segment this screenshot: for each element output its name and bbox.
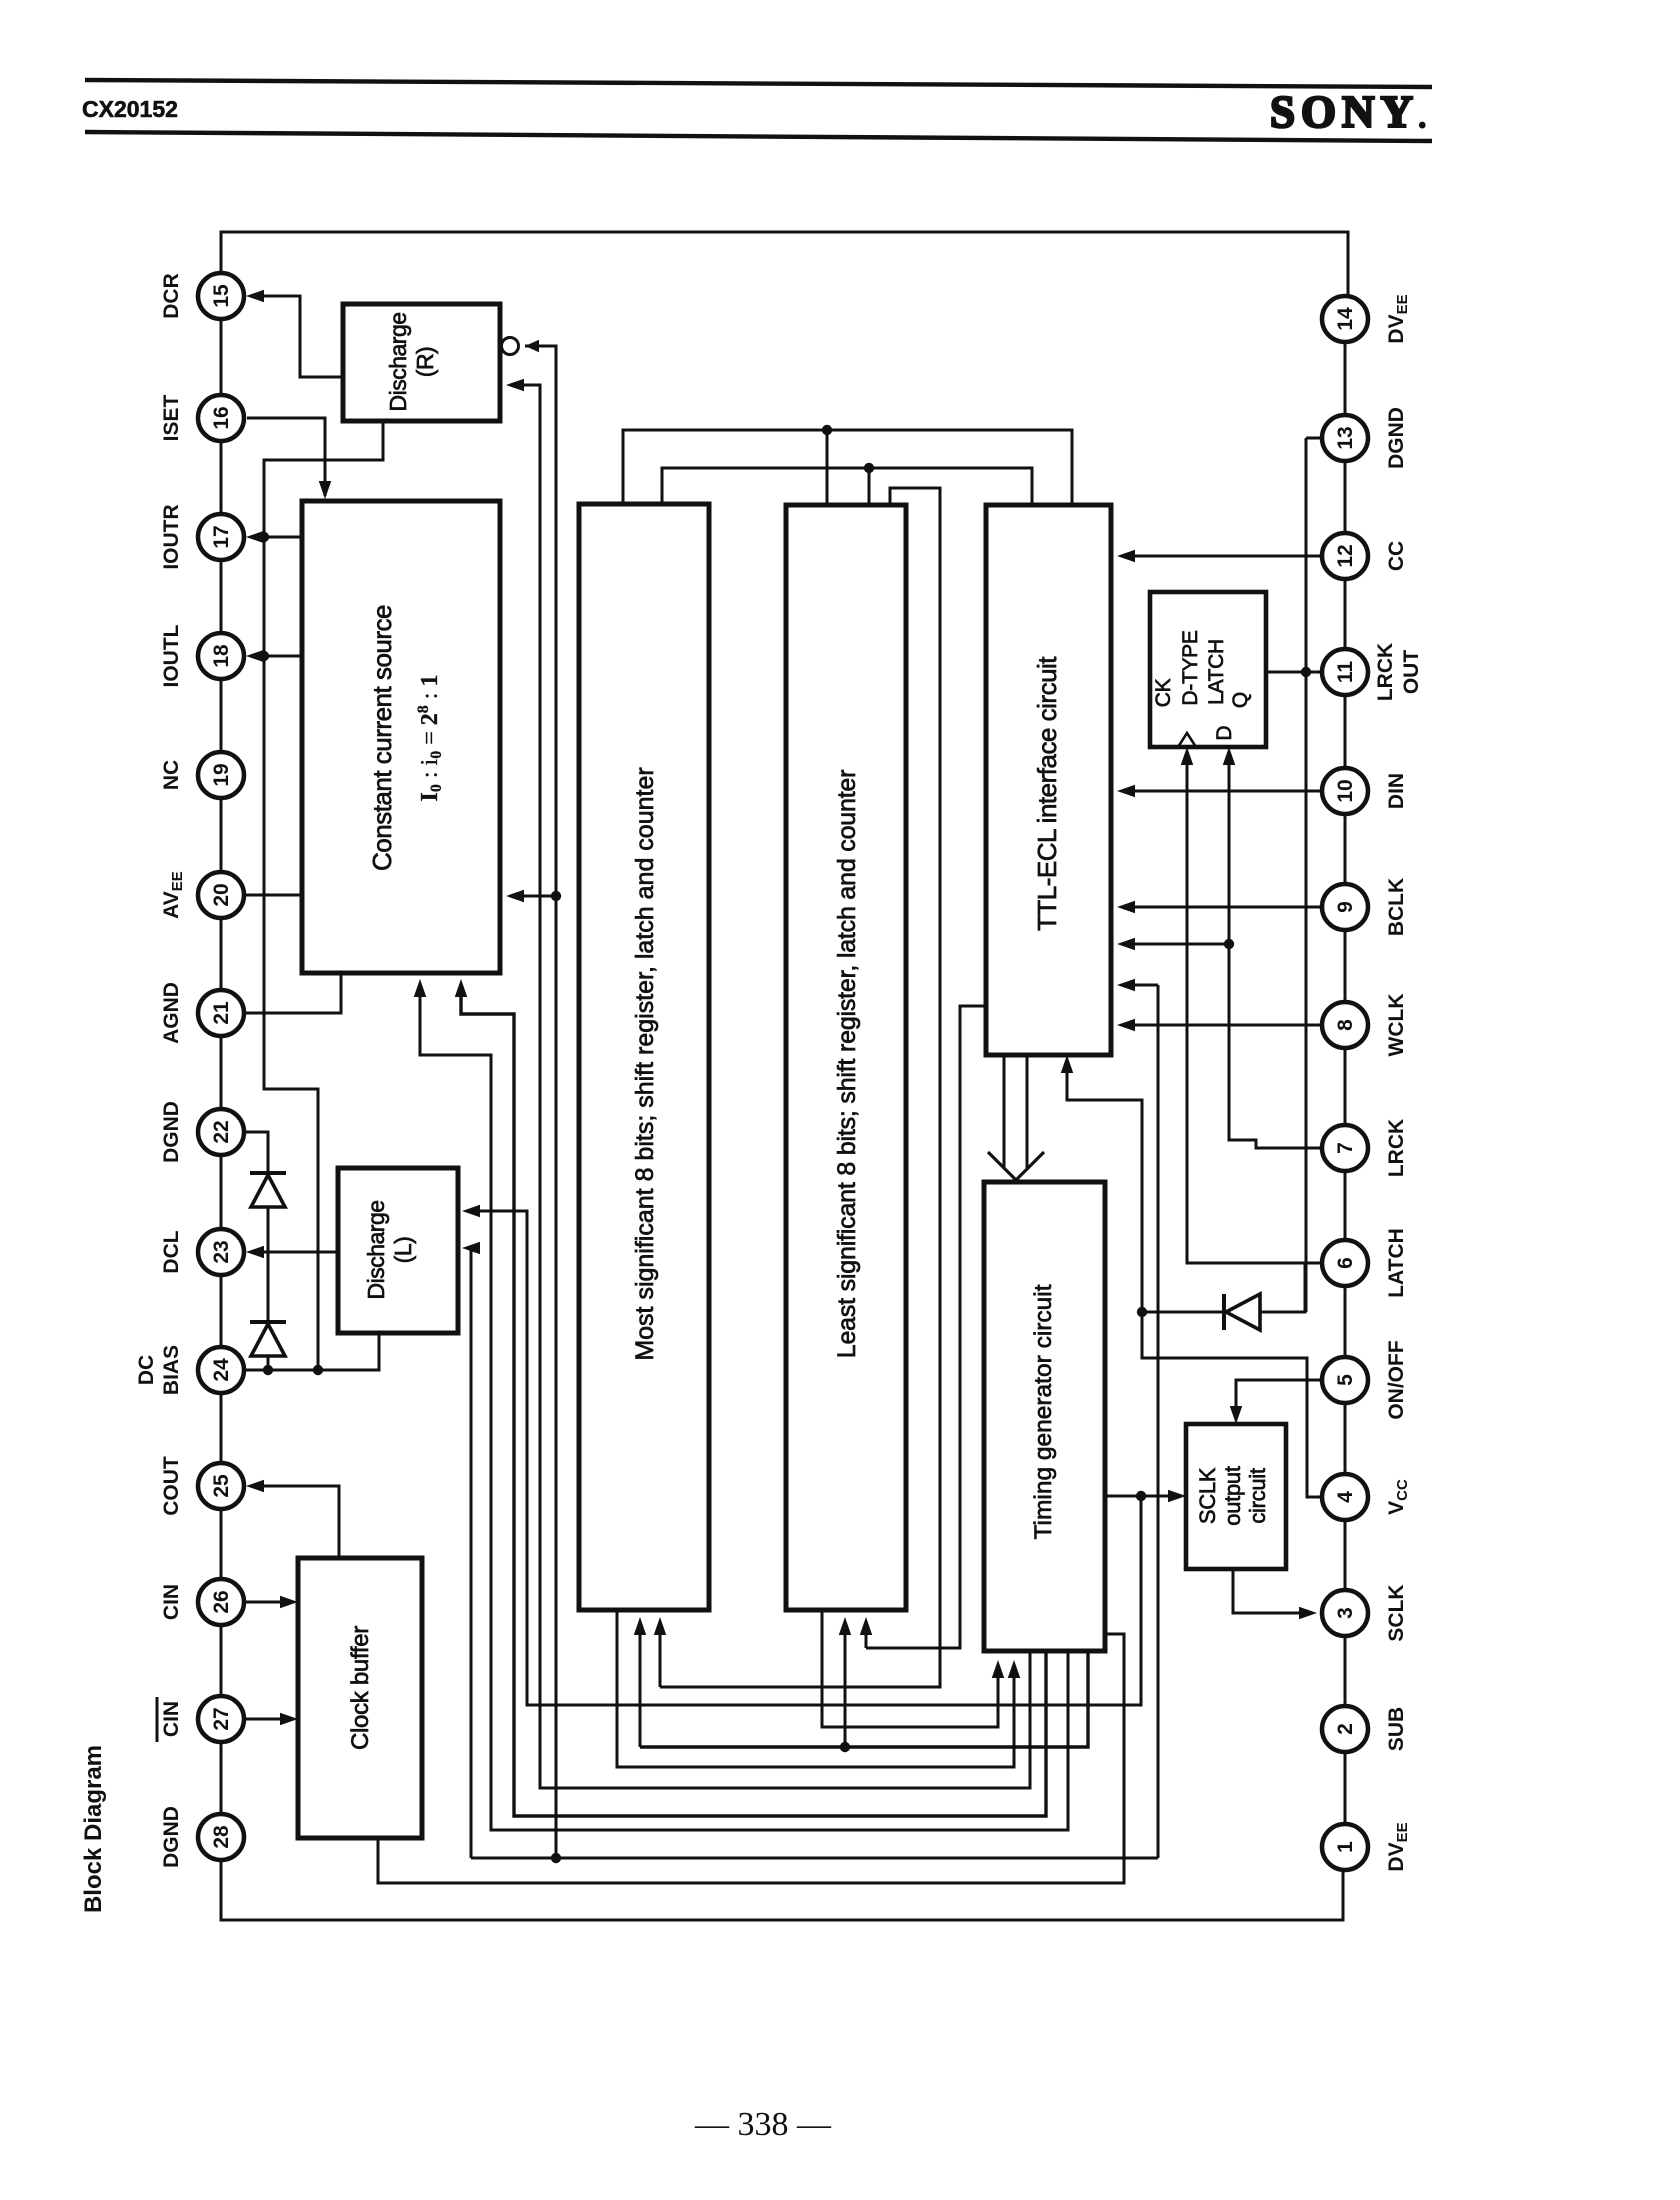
- arrowhead into U1 D input: [1223, 747, 1236, 765]
- pin 2 circle: [1322, 1706, 1368, 1752]
- svg-text:14: 14: [1334, 307, 1357, 331]
- svg-text:20: 20: [210, 883, 233, 906]
- wire into TTLECL right edge power: [1123, 984, 1158, 987]
- svg-text:13: 13: [1334, 426, 1357, 449]
- wire node from Discharge R bottom down left rail to DC BIAS: [264, 421, 383, 1366]
- wire DGND pin 13 stub: [1306, 437, 1322, 440]
- wire LRCK branch into TTLECL: [1123, 943, 1229, 946]
- svg-text:Constant current source: Constant current source: [367, 605, 397, 871]
- junction to constant current source enable: [551, 891, 561, 901]
- svg-text:15: 15: [210, 284, 233, 308]
- wire bottom bus B9: [556, 1857, 1158, 1860]
- svg-text:SONY.: SONY.: [1270, 87, 1432, 137]
- wire Discharge R output to DCR pin 15: [252, 296, 343, 377]
- wire timing net to constant current source input 2: [461, 985, 1046, 1816]
- arrowhead into clock buffer CIN: [280, 1596, 298, 1609]
- svg-text:output: output: [1220, 1466, 1245, 1526]
- wire clock buffer output to timing generator right edge: [378, 1634, 1124, 1883]
- arrowhead into constant current source top: [319, 481, 332, 499]
- svg-text:6: 6: [1334, 1257, 1357, 1269]
- svg-text:SUB: SUB: [1385, 1707, 1408, 1751]
- wire IOUTR from constant current source to pin 17: [252, 536, 302, 539]
- arrowhead into pin 18: [246, 650, 264, 663]
- wire clamp diode anode to LATCH line: [1260, 1263, 1305, 1312]
- pin 6 circle: [1322, 1240, 1368, 1286]
- arrowhead into pin 25: [246, 1480, 264, 1493]
- pin 3 circle: [1322, 1590, 1368, 1636]
- wire DCL from Discharge L to pin 23: [252, 1251, 338, 1254]
- svg-text:16: 16: [210, 406, 233, 429]
- svg-text:DCL: DCL: [160, 1230, 183, 1273]
- junction LRCK branch: [1224, 939, 1234, 949]
- wire DGND pin 22 to diode clamp chain: [246, 1132, 268, 1173]
- wire DC BIAS pin 24 to Discharge L bottom: [246, 1333, 379, 1370]
- wire right pin chain: [1344, 342, 1347, 415]
- wire between clamp diodes: [267, 1207, 270, 1322]
- svg-text:Block Diagram: Block Diagram: [80, 1745, 107, 1913]
- arrowhead into Discharge L right edge 1: [462, 1205, 480, 1218]
- wire ON/OFF pin 5 to SCLK output circuit: [1236, 1380, 1322, 1418]
- svg-text:19: 19: [210, 763, 233, 786]
- svg-text:Clock buffer: Clock buffer: [347, 1626, 374, 1750]
- svg-text:ISET: ISET: [160, 394, 183, 441]
- svg-text:11: 11: [1334, 661, 1357, 684]
- pin 28 circle: [198, 1814, 244, 1860]
- wire Vcc pin 4 rail to TTLECL bottom: [1067, 1061, 1322, 1497]
- pin 21 circle: [198, 990, 244, 1036]
- wire Q output of U1 to pin 11 LRCK OUT: [1266, 671, 1322, 674]
- svg-text:12: 12: [1334, 544, 1357, 567]
- svg-text:5: 5: [1334, 1374, 1357, 1386]
- pin 23 circle: [198, 1229, 244, 1275]
- svg-text:CIN: CIN: [160, 1584, 183, 1620]
- svg-text:8: 8: [1334, 1019, 1357, 1031]
- pin 16 circle: [198, 395, 244, 441]
- svg-text:DCR: DCR: [160, 273, 183, 319]
- svg-text:(R): (R): [412, 347, 438, 377]
- svg-text:Q: Q: [1229, 692, 1252, 708]
- block Least significant 8 bits shift register latch and counter: [786, 505, 906, 1610]
- wire carry riser into MSB: [659, 1630, 662, 1687]
- pin 7 circle: [1322, 1125, 1368, 1171]
- junction clamp chain at DC BIAS wire: [263, 1365, 273, 1375]
- svg-text:WCLK: WCLK: [1385, 994, 1408, 1057]
- arrowhead into Discharge R right edge: [506, 379, 524, 392]
- wire TTLECL to timing pair 2: [1026, 1055, 1029, 1168]
- arrowhead strobe into LSB bottom: [839, 1617, 852, 1635]
- inverter bubble at Discharge R input: [502, 338, 519, 355]
- arrowhead into pin 17: [246, 531, 264, 544]
- svg-text:4: 4: [1334, 1491, 1357, 1503]
- wire clamp diode cathode to Vcc rail: [1142, 1311, 1224, 1314]
- block Discharge (R): [343, 304, 500, 421]
- svg-text:— 338 —: — 338 —: [694, 2106, 832, 2143]
- svg-text:BIAS: BIAS: [160, 1345, 183, 1395]
- svg-text:IOUTR: IOUTR: [160, 504, 183, 569]
- svg-text:DGND: DGND: [1385, 407, 1408, 469]
- svg-text:7: 7: [1334, 1142, 1357, 1154]
- svg-text:DGND: DGND: [160, 1806, 183, 1868]
- wire diode D2 to DC BIAS wire: [267, 1356, 270, 1366]
- wire branch into constant current source right edge: [512, 895, 556, 898]
- svg-text:CX20152: CX20152: [82, 96, 178, 122]
- arrowhead into constant current source bottom 1: [414, 979, 427, 997]
- block Timing generator circuit: [984, 1182, 1105, 1651]
- junction IOUTR with discharge rail: [259, 532, 269, 542]
- svg-text:18: 18: [210, 644, 233, 668]
- block Discharge (L): [338, 1168, 458, 1333]
- pin 12 circle: [1322, 533, 1368, 579]
- wire CC pin 12 to TTLECL: [1123, 555, 1322, 558]
- arrowhead into TTLECL right edge power: [1117, 979, 1135, 992]
- junction SCLK net: [1136, 1491, 1146, 1501]
- svg-text:21: 21: [210, 1001, 233, 1025]
- svg-text:SCLK: SCLK: [1385, 1584, 1408, 1641]
- block Clock buffer: [298, 1558, 422, 1838]
- pin 27 circle: [198, 1696, 244, 1742]
- wire timing strobe bus to MSB and LSB latch inputs: [640, 1651, 1088, 1747]
- arrowhead into constant current source right edge: [506, 890, 524, 903]
- arrowhead into Discharge L right edge 2: [462, 1242, 480, 1255]
- wire timing generator SCLK output: [1105, 1495, 1180, 1498]
- svg-text:(L): (L): [390, 1237, 416, 1264]
- svg-text:AGND: AGND: [160, 982, 183, 1044]
- svg-text:LRCK: LRCK: [1374, 643, 1397, 701]
- pin 8 circle: [1322, 1002, 1368, 1048]
- pin 10 circle: [1322, 768, 1368, 814]
- wire LSB bottom out to timing generator: [822, 1610, 998, 1727]
- wire IOUTL from constant current source to pin 18: [252, 655, 302, 658]
- svg-text:Least significant 8 bits; shif: Least significant 8 bits; shift register…: [833, 770, 861, 1359]
- wire bus A drop to LSB top: [826, 430, 829, 505]
- pin 15 circle: [198, 273, 244, 319]
- wire SCLK net to Discharge L input 1: [468, 1211, 1141, 1705]
- pin 18 circle: [198, 633, 244, 679]
- wire AVEE pin 20 into constant current source: [246, 894, 302, 897]
- arrowhead into pin 15: [246, 290, 264, 303]
- wire bottom border from pin 28 to pin 1: [221, 1860, 1343, 1920]
- svg-text:24: 24: [210, 1358, 233, 1382]
- wire timing net to Discharge R input: [512, 385, 1030, 1788]
- svg-text:LATCH: LATCH: [1205, 639, 1228, 705]
- svg-text:SCLK: SCLK: [1195, 1467, 1220, 1524]
- arrowhead into SCLK output circuit left edge: [1168, 1490, 1186, 1503]
- arrowhead carry into MSB bottom: [654, 1617, 667, 1635]
- wire strobe riser to LSB: [844, 1630, 847, 1747]
- arrowhead LRCK into TTLECL: [1117, 938, 1135, 951]
- svg-text:BCLK: BCLK: [1385, 878, 1408, 936]
- header bottom rule: [85, 132, 1432, 141]
- svg-text:CIN: CIN: [160, 1701, 183, 1737]
- wire data bus A MSB-LSB-TTLECL tops: [623, 430, 1072, 505]
- arrowhead into SCLK output circuit top: [1230, 1406, 1243, 1424]
- wire data bus B MSB-LSB-TTLECL tops: [662, 468, 1032, 505]
- svg-text:OUT: OUT: [1400, 650, 1423, 695]
- wire SCLK output circuit to pin 3: [1233, 1569, 1311, 1613]
- svg-text:DC: DC: [135, 1355, 158, 1385]
- svg-text:D-TYPE: D-TYPE: [1179, 630, 1202, 706]
- wire top border from pin 15 to pin 14: [221, 232, 1348, 296]
- svg-text:Most significant 8 bits; shift: Most significant 8 bits; shift register,…: [631, 767, 659, 1360]
- arrowhead into U1 CK input: [1181, 747, 1194, 765]
- junction bus A to LSB: [822, 425, 832, 435]
- pin 22 circle: [198, 1109, 244, 1155]
- pin 13 circle: [1322, 415, 1368, 461]
- svg-text:Discharge: Discharge: [385, 312, 411, 411]
- arrowhead into pin 23: [246, 1246, 264, 1259]
- svg-text:22: 22: [210, 1120, 233, 1143]
- arrowhead into constant current source bottom 2: [455, 979, 468, 997]
- wire BCLK pin 9 to TTLECL: [1123, 906, 1322, 909]
- svg-text:DIN: DIN: [1385, 773, 1408, 809]
- junction strobe to LSB riser: [840, 1742, 850, 1752]
- wide arrowhead into timing generator top: [988, 1152, 1044, 1180]
- svg-text:COUT: COUT: [160, 1456, 183, 1516]
- diode D3 clamp LATCH-Vcc: [1222, 1294, 1226, 1330]
- wire bus B drop to LSB top: [868, 468, 871, 505]
- wire left pin chain: [220, 319, 223, 395]
- pin 24 circle: [198, 1347, 244, 1393]
- diode D1 clamp DGND-DCL: [250, 1171, 286, 1175]
- arrowhead strobe into MSB bottom: [634, 1617, 647, 1635]
- arrowhead into pin 3 SCLK: [1299, 1607, 1317, 1620]
- svg-text:9: 9: [1334, 901, 1357, 913]
- svg-text:LATCH: LATCH: [1385, 1228, 1408, 1298]
- wire MSB bottom out to timing generator: [617, 1610, 1014, 1767]
- svg-text:D: D: [1213, 725, 1236, 740]
- pin 25 circle: [198, 1463, 244, 1509]
- arrowhead WCLK into TTLECL: [1117, 1019, 1135, 1032]
- junction bus B to LSB: [864, 463, 874, 473]
- arrowhead into timing generator bottom 1: [992, 1660, 1005, 1678]
- svg-text:CC: CC: [1385, 541, 1408, 571]
- pin 1 circle: [1322, 1824, 1368, 1870]
- wire LRCK pin 7 to U1 D input: [1229, 753, 1322, 1148]
- clock input chevron of U1: [1178, 733, 1196, 747]
- junction Vcc rail at clamp diode: [1137, 1307, 1147, 1317]
- svg-text:28: 28: [210, 1825, 233, 1849]
- wire TTLECL feed riser right side: [1157, 985, 1160, 1858]
- arrowhead DIN into TTLECL: [1117, 785, 1135, 798]
- block Most significant 8 bits shift register latch and counter: [579, 504, 709, 1610]
- wire LATCH pin 6 to U1 CK input: [1187, 753, 1322, 1263]
- wire ISET pin 16 to constant current source top: [247, 418, 325, 496]
- arrowhead into Discharge R bubble: [525, 340, 539, 353]
- arrowhead BCLK into TTLECL: [1117, 901, 1135, 914]
- junction on TTLECL bottom bus: [551, 1853, 561, 1863]
- wire strobe riser to MSB: [639, 1630, 642, 1747]
- svg-text:circuit: circuit: [1245, 1468, 1270, 1524]
- pin 11 circle: [1322, 649, 1368, 695]
- wire DIN pin 10 to TTLECL: [1123, 790, 1322, 793]
- arrowhead CC into TTLECL: [1117, 550, 1135, 563]
- svg-text:10: 10: [1334, 779, 1357, 802]
- svg-text:Discharge: Discharge: [363, 1200, 389, 1299]
- svg-text:DGND: DGND: [160, 1101, 183, 1163]
- svg-text:IOUTL: IOUTL: [160, 624, 183, 687]
- wire carry net LSB top to MSB bottom input: [660, 488, 940, 1687]
- svg-text:17: 17: [210, 525, 233, 548]
- svg-text:CK: CK: [1152, 678, 1175, 707]
- arrowhead into timing generator bottom 2: [1008, 1660, 1021, 1678]
- arrowhead Vcc into TTLECL bottom: [1061, 1055, 1074, 1073]
- pin 19 circle: [198, 752, 244, 798]
- wire COUT from clock buffer to pin 25: [252, 1486, 339, 1558]
- wire CIN pin 26 to clock buffer: [246, 1601, 292, 1604]
- wire TTLECL to timing pair 1: [1003, 1055, 1006, 1168]
- wire bottom bus B9 left segment: [471, 1857, 556, 1860]
- wire DGND rail down right side: [1305, 438, 1308, 1312]
- flip-flop U1 D-TYPE LATCH: [1150, 592, 1266, 747]
- svg-text:23: 23: [210, 1240, 233, 1263]
- svg-text:TTL-ECL interface circuit: TTL-ECL interface circuit: [1032, 656, 1062, 931]
- pin 20 circle: [198, 872, 244, 918]
- junction at DC BIAS wire: [313, 1365, 323, 1375]
- svg-text:I0 : i0 = 28 : 1: I0 : i0 = 28 : 1: [415, 675, 445, 802]
- block SCLK output circuit: [1186, 1424, 1286, 1569]
- arrowhead into LSB bottom: [860, 1617, 873, 1635]
- svg-text:3: 3: [1334, 1607, 1357, 1619]
- svg-text:Timing generator circuit: Timing generator circuit: [1030, 1284, 1057, 1539]
- block TTL-ECL interface circuit: [986, 505, 1111, 1055]
- wire AGND pin 21 into constant current source bottom: [246, 973, 341, 1013]
- svg-text:ON/OFF: ON/OFF: [1385, 1340, 1408, 1419]
- pin 26 circle: [198, 1579, 244, 1625]
- junction IOUTL with discharge rail: [259, 651, 269, 661]
- wire WCLK pin 8 to TTLECL: [1123, 1024, 1322, 1027]
- wire CINbar pin 27 to clock buffer: [246, 1718, 292, 1721]
- pin 14 circle: [1322, 296, 1368, 342]
- svg-text:NC: NC: [160, 760, 183, 790]
- svg-text:LRCK: LRCK: [1385, 1119, 1408, 1177]
- wire TTLECL net to Discharge L input 2: [468, 1248, 471, 1858]
- arrowhead into clock buffer CINbar: [280, 1713, 298, 1726]
- wire timing net to constant current source input 1: [420, 985, 1068, 1830]
- header top rule: [85, 80, 1432, 87]
- svg-text:1: 1: [1334, 1841, 1357, 1853]
- wire TTLECL net to Discharge R bubble and constant current source: [525, 346, 556, 1858]
- pin 5 circle: [1322, 1357, 1368, 1403]
- wire riser TTLECL net into LSB: [865, 1630, 868, 1648]
- pin 9 circle: [1322, 884, 1368, 930]
- svg-text:2: 2: [1334, 1723, 1357, 1735]
- pin 17 circle: [198, 514, 244, 560]
- svg-text:26: 26: [210, 1590, 233, 1613]
- svg-text:25: 25: [210, 1474, 233, 1498]
- svg-text:27: 27: [210, 1707, 233, 1730]
- wire TTLECL left output to LSB bottom input: [866, 1006, 987, 1648]
- diode D2 clamp DCL-DCBIAS: [250, 1320, 286, 1324]
- block Constant current source: [302, 501, 500, 973]
- junction LRCK OUT: [1301, 667, 1311, 677]
- pin 4 circle: [1322, 1474, 1368, 1520]
